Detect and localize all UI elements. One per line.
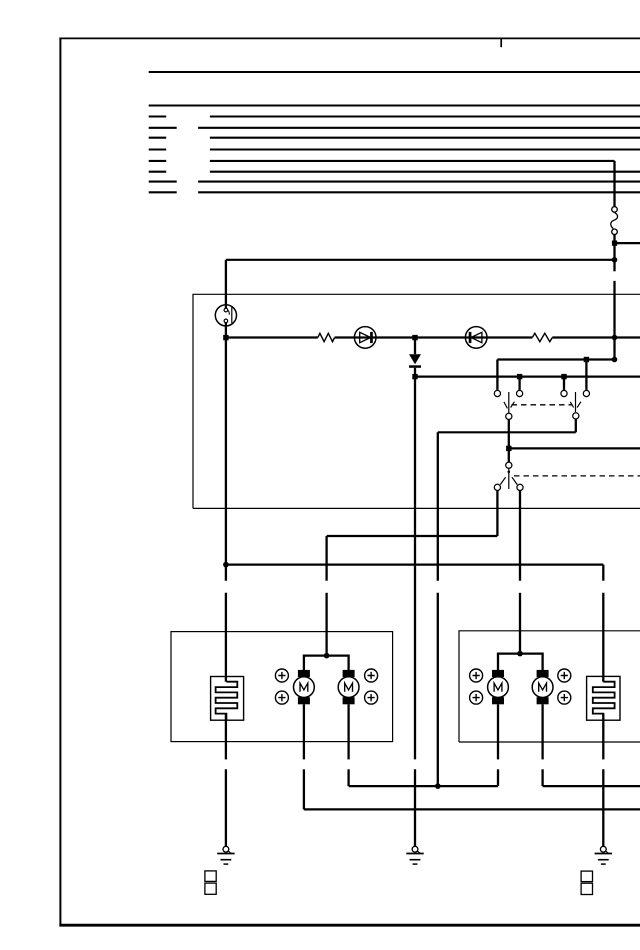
wire: harness line 8 stub [149, 181, 177, 183]
wire: left motor feed after connector [325, 593, 327, 656]
ground G2 tail [417, 851, 420, 853]
ground G3 terminal circle [600, 846, 606, 852]
wire: SW2 contact R down [519, 491, 521, 581]
wire: harness line 8 [198, 181, 640, 183]
switch SW1b pole contact [573, 413, 579, 419]
wire: main line segment 3 [552, 336, 640, 338]
ground G1 [217, 854, 234, 865]
ground G2 terminal circle [412, 846, 418, 852]
diode D3 cathode bar [409, 365, 421, 368]
ground G1 terminal circle [223, 846, 229, 852]
wire: switch S1 output [225, 323, 227, 338]
wire: harness line 1 [149, 104, 640, 106]
wire: harness line 4 [210, 137, 640, 139]
wire: diode branch after connector to ground [414, 769, 416, 846]
junction dot left motor feed [324, 653, 330, 659]
motor M3 label [494, 683, 502, 692]
junction dot on y=786.1 [435, 783, 441, 789]
ground G1 tail [228, 851, 231, 853]
junction dot right motor feed [517, 651, 523, 657]
wire: harness line 6 stub [149, 160, 167, 162]
wire: link y=809.4 [304, 808, 640, 810]
indicator LED D1 circle [354, 327, 376, 349]
right mirror assembly box [459, 631, 640, 742]
wire: motor M4 exit [541, 704, 543, 759]
switch SW1b contact 4 [583, 390, 589, 396]
junction square at breaker output node [612, 241, 617, 246]
ground G3 label box 2 [581, 883, 592, 894]
ground G3 tail [606, 851, 609, 853]
wire: branch right at y=243 [615, 242, 640, 244]
wire: branch left to switch feed [226, 259, 615, 261]
junction dot at y=260 [612, 257, 618, 263]
wire: right heater exit [602, 714, 604, 760]
motor M4 label [539, 683, 547, 692]
thermistor symbol 6 [470, 691, 483, 704]
wire: breaker drop from harness line 6 [613, 161, 615, 206]
border frame top edge [59, 37, 640, 39]
motor M2 body [338, 677, 359, 698]
LED D2 triangle [471, 332, 482, 342]
wire: heater link y=564.6 [226, 563, 603, 565]
top margin tick mark [500, 38, 502, 47]
motor M4 brush top [537, 670, 549, 677]
switch SW1a pole contact [506, 413, 512, 419]
motor M1 body [294, 677, 315, 698]
junction dot heater branch [223, 562, 229, 568]
circuit breaker element [611, 213, 618, 229]
motor M1 brush top [298, 670, 310, 677]
right mirror heater element [593, 682, 615, 721]
wire: harness line 5 stub [149, 148, 167, 150]
wire: diode D3 anode [414, 338, 416, 355]
wire: harness line 7 [210, 171, 640, 173]
wire: stub to contact 3 [563, 377, 565, 390]
wire: cross link y=536 [327, 535, 498, 537]
wire: cross link y=432.3 [438, 431, 576, 433]
switch SW1a contact 2 [517, 390, 523, 396]
circuit breaker lower terminal [612, 229, 618, 235]
switch SW2 contact R [517, 484, 523, 490]
switch SW1a blade [504, 392, 515, 413]
wire: right heater drop after connector [602, 593, 604, 682]
wire: main line segment 2 [335, 336, 533, 338]
thermistor symbol 4 [365, 691, 378, 704]
wire: motor M4 after connector [541, 769, 543, 786]
resistor R1 [318, 333, 335, 341]
right mirror heater outline [587, 676, 620, 720]
wire: left motor pair bridge [304, 656, 349, 670]
indicator LED D2 circle [465, 327, 487, 349]
switch SW1b contact 3 [561, 390, 567, 396]
wire: left heater to ground after connector [225, 769, 227, 846]
motor M3 body [488, 677, 509, 698]
left mirror heater element [216, 682, 238, 721]
motor M2 brush bottom [343, 697, 355, 704]
wire: motor M3 exit [497, 704, 499, 759]
junction square on bus at contact 2 [517, 374, 522, 379]
wire: motor M1 after connector to y=809 [303, 769, 305, 809]
wire: SW2 contact L down [496, 491, 498, 536]
control unit box outline [193, 294, 640, 508]
junction square at node A (diode branch) [412, 335, 417, 340]
motor M4 brush bottom [537, 697, 549, 704]
wire: right heater to ground after connector [602, 769, 604, 846]
wire: breaker drop resumes after connector gap [613, 281, 615, 338]
wire: motor M2 after connector to y=786 [347, 769, 349, 786]
border frame left edge [59, 38, 61, 927]
junction square on link line [584, 357, 589, 362]
switch S1 upper contact [224, 308, 228, 312]
motor M1 brush bottom [298, 697, 310, 704]
wire: stub to contact 1 [496, 360, 498, 390]
wire: bus line y=377 [415, 376, 640, 378]
wire: vertical x=437.8 upper [437, 432, 439, 580]
wire: harness line 3 stub [149, 127, 177, 129]
switch SW2 blade [500, 469, 517, 490]
ground G3 [595, 854, 612, 865]
junction square on bus at contact 3 [561, 374, 566, 379]
wire: motor M1 exit [303, 704, 305, 759]
motor M1 label [300, 683, 308, 692]
wire: right vertical main-to-link [613, 338, 615, 360]
ground G1 label box 1 [205, 871, 216, 882]
wire: harness line 9 stub [149, 191, 177, 193]
left mirror heater outline [211, 677, 244, 721]
wire: motor M2 exit [347, 704, 349, 759]
junction square at bus start [412, 374, 417, 379]
switch S1 body circle [215, 305, 236, 326]
wire: main line segment 1 [226, 336, 318, 338]
junction dot at main line left [223, 335, 228, 340]
wire: stub to contact 2 [518, 377, 520, 390]
dashed mechanical link SW2 [514, 475, 640, 477]
wire: motor M3 after connector [497, 769, 499, 786]
wire: right motor pair bridge [498, 654, 543, 670]
ground G3 label box 1 [581, 871, 592, 882]
wire: right motor feed after connector [519, 593, 521, 654]
switch S1 blade [231, 306, 233, 323]
junction dot link line right end [612, 357, 618, 363]
wire: S1 output drop through box [225, 338, 227, 581]
wire: harness line 3 [198, 127, 640, 129]
wire: left heater drop after connector [225, 593, 227, 682]
wire: upper link line y=359.5 [497, 358, 614, 360]
left mirror assembly box [171, 632, 393, 742]
wire: branch right at y=448.4 [509, 447, 640, 449]
thermistor symbol 3 [365, 669, 378, 682]
wire: stub to contact 4 [585, 360, 587, 390]
motor M2 label [345, 683, 353, 692]
wire: left heater exit [225, 714, 227, 760]
wire: top feed line A [149, 71, 640, 73]
motor M2 brush top [343, 670, 355, 677]
diode D3 triangle [409, 354, 421, 364]
switch SW2 contact L [494, 484, 500, 490]
wire: SW1b pole down [575, 419, 577, 432]
wire: long vertical from diode node [414, 377, 416, 760]
wire: x=437.8 after connector [437, 593, 439, 786]
wire: diode D3 cathode lead [414, 368, 416, 377]
circuit breaker upper terminal [612, 207, 618, 213]
dashed mechanical link SW1a-SW1b [512, 404, 573, 406]
wire: harness line 7 stub [149, 171, 167, 173]
wire: harness line 5 [210, 148, 640, 150]
junction dot at main line right [612, 335, 618, 341]
motor M3 brush top [492, 670, 504, 677]
switch S1 contact hook [228, 310, 230, 314]
wire: right heater drop upper [602, 565, 604, 581]
wire: harness line 4 stub [149, 137, 167, 139]
LED D1 cathode bar [370, 332, 373, 343]
switch SW1b blade [570, 392, 581, 412]
wire: harness line 2 stub [149, 115, 167, 117]
LED D2 cathode bar [469, 332, 472, 343]
switch SW2 common contact [506, 462, 512, 468]
motor M4 body [532, 677, 553, 698]
wire: feed drop to switch S1 [225, 260, 227, 308]
LED D1 triangle [360, 332, 371, 342]
switch S1 lower contact [224, 319, 228, 323]
switch SW1a contact 1 [494, 390, 500, 396]
wire: link y=786.1 right segment [543, 785, 640, 787]
ground G2 [406, 854, 423, 865]
thermistor symbol 5 [470, 669, 483, 682]
thermistor symbol 2 [275, 691, 288, 704]
motor M3 brush bottom [492, 697, 504, 704]
resistor R2 [532, 333, 552, 341]
switch SW2 blade pivot tick [508, 471, 511, 474]
wire: harness line 6 to circuit breaker [210, 160, 615, 162]
wire: harness line 9 [198, 191, 640, 193]
wire: link y=786.1 left segment [349, 785, 498, 787]
wire: SW1a pole down to SW2 [508, 420, 510, 462]
thermistor symbol 7 [558, 669, 571, 682]
ground G1 label box 2 [205, 883, 216, 894]
thermistor symbol 8 [558, 691, 571, 704]
wire: breaker output vertical [613, 235, 615, 271]
border frame bottom edge [59, 924, 640, 927]
thermistor symbol 1 [275, 669, 288, 682]
junction square at SW2 feed [506, 446, 511, 451]
wire: harness line 2 [210, 115, 640, 117]
wire: left motor feed vertical upper [325, 536, 327, 581]
